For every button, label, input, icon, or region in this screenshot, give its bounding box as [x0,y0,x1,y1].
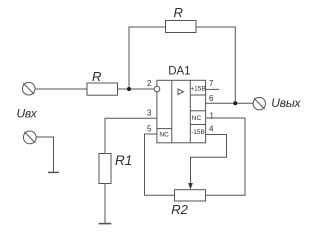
svg-text:1: 1 [210,112,215,121]
svg-text:Uвых: Uвых [271,96,301,110]
svg-text:NC: NC [192,115,202,122]
svg-text:-15В: -15В [191,129,205,136]
svg-text:R: R [92,69,101,84]
svg-text:Uвх: Uвх [17,107,38,121]
svg-text:5: 5 [147,125,152,134]
svg-text:3: 3 [147,109,152,118]
svg-text:R2: R2 [171,202,188,217]
svg-text:4: 4 [209,125,214,134]
svg-text:NC: NC [159,131,169,138]
svg-text:DA1: DA1 [168,66,190,78]
svg-text:+15В: +15В [190,86,205,93]
svg-text:7: 7 [209,79,214,88]
svg-text:2: 2 [147,79,152,88]
svg-text:R: R [174,5,183,20]
svg-text:R1: R1 [115,153,132,168]
svg-text:6: 6 [209,94,214,103]
